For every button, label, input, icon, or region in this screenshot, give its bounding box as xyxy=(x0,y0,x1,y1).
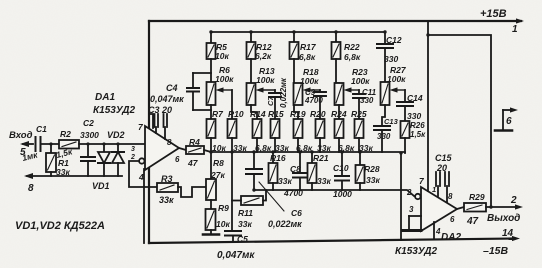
potentiometer R27 xyxy=(381,65,407,105)
svg-text:8: 8 xyxy=(28,183,34,194)
svg-text:R22: R22 xyxy=(344,42,360,52)
svg-text:С8: С8 xyxy=(290,164,301,174)
svg-text:R11: R11 xyxy=(238,208,253,218)
resistor R3 xyxy=(157,174,178,205)
svg-text:10к: 10к xyxy=(216,219,230,229)
op-amp DA2 xyxy=(395,176,461,257)
svg-text:R10: R10 xyxy=(228,109,244,119)
svg-text:33к: 33к xyxy=(159,195,174,205)
wire R24 to lower bus xyxy=(338,138,340,152)
svg-text:47: 47 xyxy=(187,158,199,168)
band 3: resistor R17 xyxy=(290,30,317,62)
svg-text:R16: R16 xyxy=(270,153,286,163)
svg-text:1: 1 xyxy=(512,24,518,35)
resistor R8 xyxy=(206,152,225,200)
svg-text:R29: R29 xyxy=(469,192,485,202)
svg-text:R17: R17 xyxy=(300,42,317,52)
wire pot R13 to R14 xyxy=(251,105,257,119)
resistor R29 xyxy=(464,192,486,227)
svg-text:С13: С13 xyxy=(384,117,399,126)
svg-text:R20: R20 xyxy=(310,109,326,119)
capacitor C6 xyxy=(246,150,302,229)
band 2: resistor R12 xyxy=(247,30,272,61)
wire pot R18 to R19 xyxy=(294,105,298,119)
svg-text:8: 8 xyxy=(167,138,172,147)
band 5: capacitor C12 xyxy=(377,30,402,82)
resistor R19 xyxy=(290,109,313,153)
svg-text:6: 6 xyxy=(175,155,180,164)
svg-text:R4: R4 xyxy=(189,137,200,147)
DA1 pin 4 wire to -15V xyxy=(143,169,145,243)
wire R19 to lower bus xyxy=(297,138,299,152)
wire R10 down through bus to C5 xyxy=(231,138,233,231)
svg-text:33к: 33к xyxy=(278,176,292,186)
svg-text:100к: 100к xyxy=(387,74,406,84)
wire pot R6 to R7 xyxy=(210,105,212,119)
svg-text:С6: С6 xyxy=(291,208,302,218)
svg-text:С10: С10 xyxy=(333,163,349,173)
svg-text:100к: 100к xyxy=(256,75,275,85)
terminal 6 chassis symbol xyxy=(495,107,518,130)
wiper1 drop wire xyxy=(231,90,233,119)
svg-text:Выход: Выход xyxy=(487,213,520,224)
svg-text:6,8к: 6,8к xyxy=(299,52,316,62)
svg-text:VD2: VD2 xyxy=(107,130,125,140)
svg-text:R26: R26 xyxy=(410,121,425,130)
resistor R28 xyxy=(356,150,381,190)
svg-text:–15В: –15В xyxy=(483,245,509,257)
svg-text:6: 6 xyxy=(506,116,512,127)
band 4: resistor R22 xyxy=(332,30,361,62)
right side box wire xyxy=(426,33,492,208)
svg-text:С15: С15 xyxy=(435,153,453,163)
svg-text:+15В: +15В xyxy=(480,8,507,20)
wire R2 to DA1 pin3 xyxy=(79,143,145,145)
svg-text:2: 2 xyxy=(130,154,135,161)
svg-text:VD1: VD1 xyxy=(92,181,110,191)
svg-text:R8: R8 xyxy=(213,158,224,168)
potentiometer R13 xyxy=(247,66,276,105)
svg-text:33к: 33к xyxy=(238,219,252,229)
svg-text:33к: 33к xyxy=(317,176,331,186)
svg-text:R9: R9 xyxy=(218,203,229,213)
svg-text:6,8к: 6,8к xyxy=(344,52,361,62)
capacitor C9 on wiper3 drop xyxy=(304,88,326,119)
svg-text:0,022мк: 0,022мк xyxy=(268,219,302,229)
resistor R7 xyxy=(207,109,227,153)
node A (C1/R1/R2 junction) xyxy=(49,142,52,145)
resistor R1 xyxy=(46,144,70,177)
svg-text:R24: R24 xyxy=(331,109,347,119)
svg-text:0,022мк: 0,022мк xyxy=(279,77,288,108)
svg-text:20: 20 xyxy=(436,163,447,173)
svg-text:330: 330 xyxy=(384,54,398,64)
resistor R10 xyxy=(228,109,248,153)
resistor R24 xyxy=(331,109,355,153)
wire R22 to pot R23 xyxy=(336,59,339,83)
capacitor C11 on wiper4 drop xyxy=(353,88,377,119)
output wire with terminal 2 xyxy=(486,195,523,224)
resistor R16 xyxy=(269,150,293,190)
potentiometer R18 xyxy=(294,67,321,105)
svg-text:VD1,VD2 КД522А: VD1,VD2 КД522А xyxy=(15,220,105,232)
svg-text:С2: С2 xyxy=(83,118,94,128)
svg-text:R7: R7 xyxy=(212,109,224,119)
wire R15 to lower bus xyxy=(274,138,276,152)
svg-text:С7: С7 xyxy=(266,96,275,106)
svg-text:С14: С14 xyxy=(407,93,423,103)
svg-text:47: 47 xyxy=(466,216,479,227)
DA2 output wire xyxy=(457,207,464,209)
wire node to bottom rail xyxy=(399,151,402,240)
svg-text:4700: 4700 xyxy=(304,96,323,105)
svg-text:0,047мк: 0,047мк xyxy=(217,250,255,261)
capacitor C10 xyxy=(333,150,352,199)
capacitor C2 xyxy=(80,118,99,176)
wire R26 to lower bus xyxy=(404,138,406,153)
svg-text:6,2к: 6,2к xyxy=(255,51,272,61)
-15V rail (bottom border) xyxy=(149,236,520,243)
svg-text:С5: С5 xyxy=(237,234,248,244)
resistor R9 xyxy=(206,200,231,230)
DA2 pin 3 input with ground xyxy=(403,205,421,231)
svg-text:R2: R2 xyxy=(60,129,71,139)
+15V rail (top border) xyxy=(149,18,524,23)
svg-text:33к: 33к xyxy=(366,175,380,185)
wire R5 to pot R6 xyxy=(210,59,212,82)
wire R25 to lower bus xyxy=(358,138,360,152)
DA1 pin 7 wire xyxy=(149,114,153,128)
potentiometer R23 xyxy=(335,67,371,105)
resistor R14 xyxy=(250,109,272,153)
svg-text:DA2: DA2 xyxy=(441,232,461,243)
DA1 pin 2 circle and wire xyxy=(129,158,157,187)
capacitor C14 on wiper5 drop xyxy=(397,90,423,121)
diode VD2 xyxy=(107,130,125,176)
svg-text:6: 6 xyxy=(450,215,455,224)
common wire with terminal 8 xyxy=(24,173,122,194)
capacitor C3 (correction) xyxy=(148,105,172,139)
svg-text:1000: 1000 xyxy=(333,189,352,199)
svg-text:К153УД2: К153УД2 xyxy=(93,105,135,116)
svg-text:3: 3 xyxy=(409,205,414,214)
svg-text:3300: 3300 xyxy=(80,130,99,140)
capacitor C15 (correction) xyxy=(432,153,453,202)
capacitor C4 xyxy=(150,73,211,110)
svg-text:330: 330 xyxy=(377,132,391,141)
potentiometer R6 xyxy=(207,65,235,105)
svg-text:100к: 100к xyxy=(351,76,370,86)
svg-text:R14: R14 xyxy=(250,109,266,119)
svg-text:1: 1 xyxy=(432,185,436,194)
svg-text:R25: R25 xyxy=(351,109,367,119)
svg-text:С3 20: С3 20 xyxy=(148,105,172,115)
DA2 pin 7 wire from +15V xyxy=(427,21,429,191)
svg-text:2: 2 xyxy=(406,188,412,197)
op-amp DA1 xyxy=(93,92,180,182)
svg-text:С1: С1 xyxy=(36,124,47,134)
svg-text:R21: R21 xyxy=(313,153,329,163)
wire R17 to pot R18 xyxy=(293,59,295,83)
band 1: resistor R5 xyxy=(207,30,230,61)
svg-text:27к: 27к xyxy=(210,170,225,180)
resistor R15 xyxy=(268,109,289,153)
svg-text:3: 3 xyxy=(131,146,135,153)
diode VD1 xyxy=(92,144,110,191)
svg-text:100к: 100к xyxy=(300,76,319,86)
svg-text:К153УД2: К153УД2 xyxy=(395,246,437,257)
wire R4 to lower bus xyxy=(204,150,211,152)
svg-text:С12: С12 xyxy=(386,35,402,45)
DA2 pin 4 wire xyxy=(433,222,435,240)
wire C1 to R2 xyxy=(41,143,60,145)
resistor R11 xyxy=(232,190,266,229)
resistor R25 xyxy=(351,109,373,153)
svg-text:8: 8 xyxy=(448,192,453,201)
svg-text:14: 14 xyxy=(502,228,514,239)
capacitor C7 on wiper2 drop xyxy=(266,77,288,119)
svg-text:С4: С4 xyxy=(166,83,178,93)
DA1 output wire xyxy=(179,148,186,150)
svg-text:R19: R19 xyxy=(290,109,306,119)
capacitor C5 xyxy=(217,231,255,261)
wire R20 to lower bus xyxy=(319,138,321,152)
wire R7 to lower bus xyxy=(210,138,212,152)
resistor R20 xyxy=(310,109,331,153)
svg-text:100к: 100к xyxy=(215,74,234,84)
ground under R9 xyxy=(203,230,219,235)
svg-text:R15: R15 xyxy=(268,109,284,119)
svg-text:10к: 10к xyxy=(215,51,229,61)
junction dots on input line xyxy=(86,142,89,145)
capacitor C13 below pot R27 xyxy=(374,105,399,152)
svg-text:2: 2 xyxy=(510,195,517,206)
top bus wire xyxy=(211,31,385,33)
wire pot R23 to R24 xyxy=(338,105,340,119)
resistor R21 xyxy=(308,150,332,190)
svg-text:Вход: Вход xyxy=(9,130,33,141)
lower bus wire xyxy=(211,151,405,153)
summing wire to DA2 xyxy=(254,190,414,196)
wire R14 to lower bus xyxy=(256,138,258,152)
svg-text:330: 330 xyxy=(407,111,421,121)
svg-text:4700: 4700 xyxy=(283,188,303,198)
capacitor C8 xyxy=(283,150,307,198)
wire R3 to summing column with jog xyxy=(178,187,206,197)
resistor R4 xyxy=(186,137,204,168)
wire R12 to pot R13 xyxy=(250,59,252,83)
left border wire xyxy=(148,21,150,243)
resistor R2 xyxy=(55,129,79,160)
svg-text:0,047мк: 0,047мк xyxy=(150,94,184,104)
svg-text:1,5к: 1,5к xyxy=(410,130,426,139)
input terminal 5 xyxy=(20,141,33,158)
svg-text:R28: R28 xyxy=(364,164,380,174)
DA2 pin 2 input xyxy=(406,188,420,199)
svg-text:4: 4 xyxy=(435,227,441,236)
svg-text:330: 330 xyxy=(360,96,374,105)
svg-text:DA1: DA1 xyxy=(95,92,115,103)
svg-text:R3: R3 xyxy=(161,174,173,184)
capacitor C1 xyxy=(21,124,47,163)
resistor R26 xyxy=(401,121,427,139)
